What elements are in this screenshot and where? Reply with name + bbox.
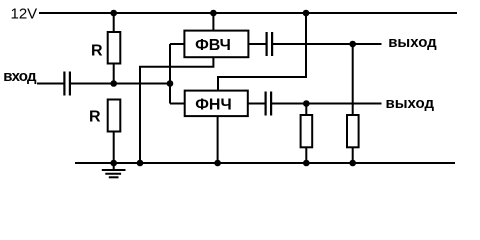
ground <box>102 163 126 177</box>
svg-text:выход: выход <box>386 95 435 112</box>
wire U1 HPF top pin to +12V <box>212 13 214 31</box>
svg-text:ФНЧ: ФНЧ <box>195 97 231 114</box>
resistor R3 <box>301 115 313 147</box>
wire +12V top rail <box>39 12 457 14</box>
wire U1 HPF bottom pin to ground <box>140 57 213 163</box>
node dot ground / LPF return <box>214 160 221 167</box>
capacitor C2 HPF output <box>266 32 274 56</box>
wire R4 top lead from HPF output <box>352 44 354 115</box>
wire C3 to output node <box>272 103 382 105</box>
wire U1 HPF output lead <box>248 43 265 45</box>
node dot ground / HPF return <box>137 160 144 167</box>
node dot ground / R2 <box>110 160 117 167</box>
node dot top rail / HPF supply <box>210 10 217 17</box>
wire R3 bottom lead <box>305 147 307 163</box>
op-amp U2 LPF block <box>185 91 248 117</box>
wire R1 bottom lead <box>113 64 115 85</box>
resistor R1 <box>108 32 121 64</box>
resistor R2 <box>108 100 121 132</box>
wire R3 top lead from LPF output <box>305 104 307 116</box>
capacitor C3 LPF output <box>265 92 273 116</box>
node dot top rail / LPF supply <box>303 10 310 17</box>
node dot mid / R divider <box>110 80 117 87</box>
svg-text:вход: вход <box>3 68 37 85</box>
svg-text:R: R <box>91 42 103 59</box>
svg-text:R: R <box>89 108 101 125</box>
capacitor C1 input <box>63 72 71 96</box>
wire R1 top lead <box>113 13 115 33</box>
wire U2 LPF bottom pin to ground <box>217 116 219 163</box>
node dot ground / R4 <box>349 160 356 167</box>
wire R4 bottom lead <box>352 147 354 163</box>
wire node A vertical (input to both filters) <box>169 44 171 104</box>
svg-text:ФВЧ: ФВЧ <box>195 37 231 54</box>
svg-text:12V: 12V <box>11 6 38 23</box>
wire R2 bottom lead <box>113 132 115 164</box>
node dot top rail / R1 <box>110 10 117 17</box>
wire U2 LPF input <box>170 103 185 105</box>
wire ground rail <box>75 162 455 164</box>
wire U1 HPF input <box>170 43 184 45</box>
wire mid node <box>71 83 170 85</box>
node dot A mid wire to filters <box>167 80 174 87</box>
node dot HPF output <box>349 41 356 48</box>
node dot LPF output <box>303 100 310 107</box>
node dot ground / R3 <box>303 160 310 167</box>
wire C2 to output node <box>273 43 382 45</box>
wire U2 LPF output lead <box>248 103 265 105</box>
svg-text:выход: выход <box>388 34 437 51</box>
op-amp U1 HPF block <box>184 31 248 58</box>
resistor R4 <box>347 115 359 147</box>
wire input lead <box>37 83 64 85</box>
wire U2 LPF top pin to +12V <box>218 13 306 91</box>
